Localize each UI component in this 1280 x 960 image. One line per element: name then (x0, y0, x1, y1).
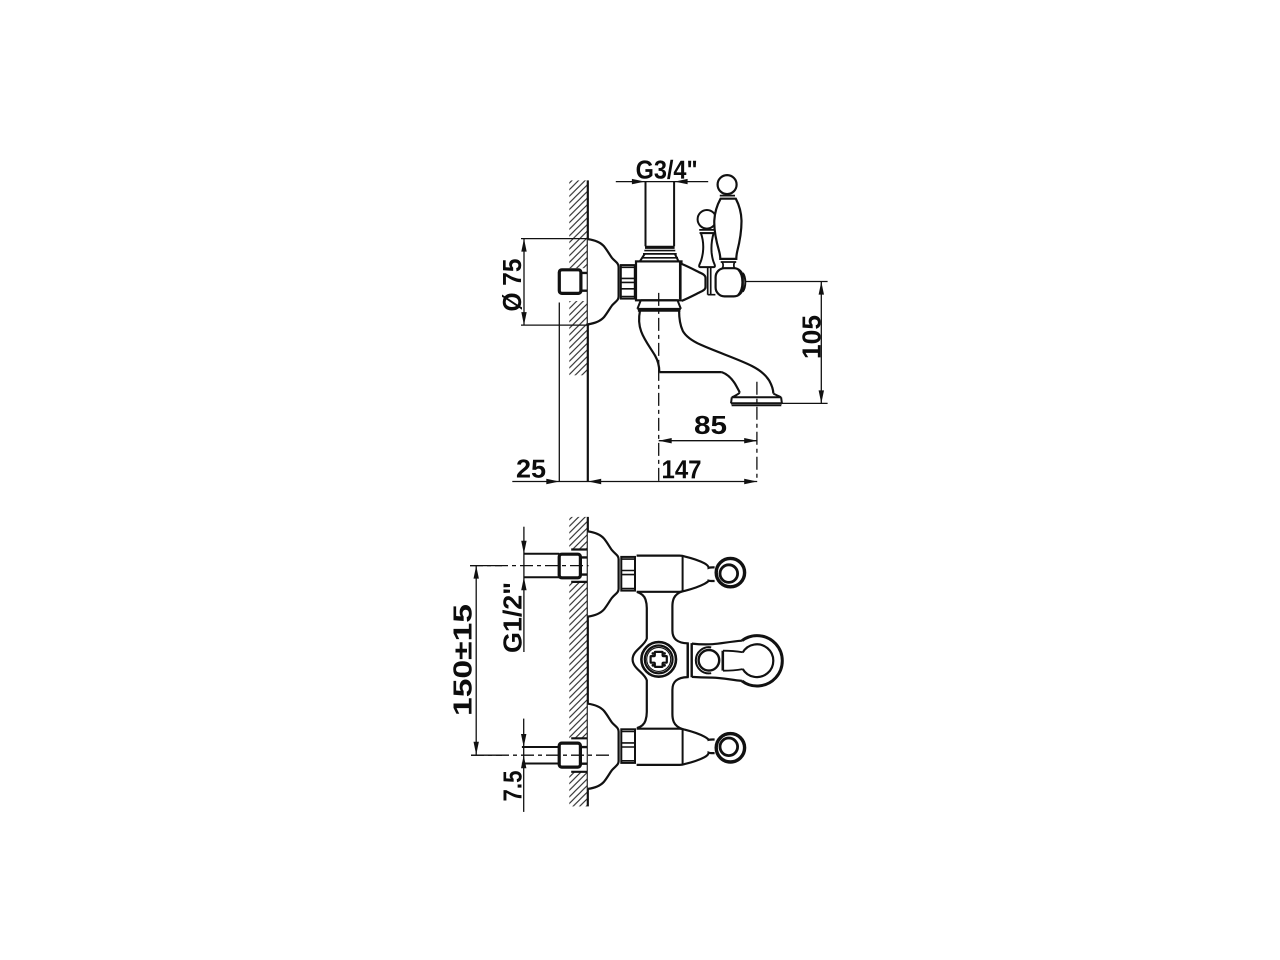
diverter clover knob outer circle (641, 642, 676, 677)
lower handle ball inner circle (720, 738, 738, 756)
svg-text:150±15: 150±15 (448, 604, 478, 716)
far handle mount band (708, 268, 716, 295)
upper cup inner end line (682, 556, 684, 591)
upper union centre line (dash-dot) (470, 565, 589, 567)
spout bottom edge (659, 371, 722, 373)
spout right edge (679, 311, 773, 394)
wall rear extension line (558, 303, 560, 482)
body end inner line (679, 263, 681, 300)
lever clamp line (721, 651, 724, 671)
trunk right edge (672, 591, 687, 730)
valve body (636, 261, 682, 300)
lever loop outer arc (742, 636, 782, 686)
dimension G1/2 line (523, 527, 525, 652)
lower knurled nut (621, 729, 635, 763)
near handle ball (718, 175, 737, 194)
svg-text:G1/2": G1/2" (498, 582, 528, 653)
upper cup body fill (637, 556, 715, 592)
spout mouth bottom rim (731, 402, 782, 404)
spout left edge (639, 311, 659, 372)
upper escutcheon bell (588, 531, 619, 616)
dimension 150+-15 line (475, 566, 477, 755)
svg-text:147: 147 (661, 454, 701, 484)
knurled wall nut (621, 265, 635, 299)
dimension 105 line (820, 282, 822, 404)
clover knob faint ring (647, 647, 671, 671)
dimension 7.5 line (523, 719, 525, 812)
cartridge cap (716, 268, 743, 296)
upper nut knurl lines (621, 559, 635, 588)
lever slot lower edge (723, 669, 743, 671)
lower cup outline (637, 729, 715, 765)
150 upper extension segment (470, 565, 502, 567)
lower escutcheon bell (588, 704, 619, 789)
knurl lines (621, 267, 635, 296)
svg-text:7.5: 7.5 (498, 771, 528, 802)
lower nut knurl lines (621, 732, 635, 761)
collar flare mid line (642, 254, 679, 258)
wall hatch lower section (569, 301, 588, 375)
clover cross (651, 652, 667, 667)
upper knurled nut (621, 557, 635, 591)
lower handle ball outer ring (716, 734, 744, 762)
upper inlet stub pipe (524, 554, 560, 577)
wall hatch section 3 (569, 772, 588, 807)
trunk left edge (633, 592, 647, 728)
far handle baluster (699, 233, 715, 267)
body centre line (dash-dot) (658, 293, 660, 482)
105 top arrow (819, 282, 824, 295)
clover knob inner ring (645, 646, 673, 674)
150 lower extension segment (471, 754, 502, 756)
upper cup outline (637, 556, 715, 592)
upper handle ball inner circle (720, 565, 738, 583)
wall face line (bottom figure) (587, 517, 589, 807)
150 bottom arrow (474, 742, 479, 755)
wall hatch upper section (569, 180, 588, 268)
cartridge cap end bulge (743, 273, 746, 292)
lower cup inner end line (682, 729, 684, 764)
body cone to cartridge (682, 264, 706, 301)
wall hatch section 2 (569, 582, 588, 738)
lever bracket top edge (692, 641, 742, 645)
square inlet fitting (behind wall) (559, 270, 581, 294)
lever slot upper edge (723, 651, 743, 653)
D75 extension lines (521, 239, 589, 326)
near handle lower neck (722, 262, 735, 268)
wall hatch section 1 (569, 517, 588, 550)
near handle base rings (720, 259, 736, 262)
150 top arrow (474, 566, 479, 579)
dimension D75 line (523, 239, 525, 326)
svg-text:G3/4": G3/4" (636, 155, 698, 185)
105 extension lines (745, 282, 827, 404)
near handle neck rings (720, 196, 735, 199)
dimension G3/4 line (616, 181, 708, 183)
lever pivot boss arc (696, 647, 711, 673)
spout mouth bottom second rim (732, 405, 782, 407)
far handle ball (698, 210, 717, 229)
svg-text:25: 25 (516, 454, 546, 484)
far handle neck rings (699, 230, 715, 233)
lower cup body fill (637, 729, 715, 765)
spout body fill (639, 311, 781, 404)
body bottom flange (637, 300, 681, 310)
spout outer bottom curve (722, 372, 740, 393)
square fitting neck lines (581, 273, 588, 291)
lower union centre line (dash-dot) (471, 754, 612, 756)
85 right arrow (744, 438, 757, 443)
escutcheon bell (588, 239, 619, 324)
lever bracket bottom edge (692, 677, 742, 681)
105 bottom arrow (819, 390, 824, 403)
147 left arrow (588, 479, 601, 484)
G3/4 right arrow (675, 179, 688, 184)
svg-text:85: 85 (694, 410, 727, 440)
lever loop inner arc (743, 644, 774, 677)
upper square neck lines (580, 557, 587, 574)
upper square union (behind wall) (559, 554, 580, 578)
7.5 upper arrow (521, 734, 526, 747)
lower inlet stub pipe (522, 747, 560, 764)
hatch clearance edges (571, 550, 588, 772)
D75 bottom arrow (521, 312, 526, 325)
lower square union (behind wall) (559, 743, 580, 767)
upper handle ball outer ring (716, 558, 744, 586)
wall face line (587, 180, 589, 481)
riser pipe G3/4 (646, 181, 675, 246)
pipe collar ring (645, 246, 675, 249)
svg-text:105: 105 (797, 315, 827, 359)
147 right arrow (744, 479, 757, 484)
7.5 lower arrow (521, 755, 526, 768)
D75 top arrow (521, 239, 526, 252)
G1/2 upper arrow (521, 541, 526, 554)
spout mouth bell (731, 393, 782, 404)
spout outlet centre line (dash-dot) (756, 382, 758, 482)
near handle baluster (714, 199, 741, 259)
lever mount lines (688, 643, 692, 677)
collar flare edges (640, 254, 679, 262)
dimension 25/147 line (512, 481, 757, 483)
lower square neck lines (580, 747, 587, 764)
svg-text:Ø 75: Ø 75 (497, 259, 527, 312)
lever pivot circle (699, 650, 720, 671)
85 left arrow (659, 438, 672, 443)
pipe collar lower ring (644, 250, 675, 252)
G3/4 left arrow (632, 179, 645, 184)
25 left arrow (546, 479, 559, 484)
dimension 85 line (659, 440, 758, 442)
G1/2 lower arrow (521, 577, 526, 590)
clover corner dots (652, 652, 655, 655)
cartridge cap end arcs (738, 270, 742, 295)
